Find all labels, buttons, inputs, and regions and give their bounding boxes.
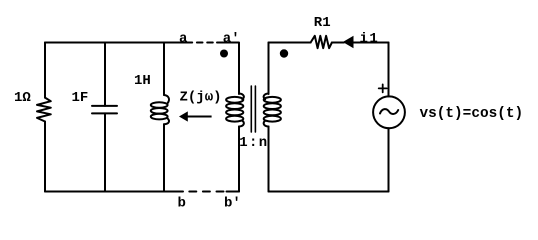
voltage source VS circle bbox=[373, 96, 405, 128]
voltage source sine tilde bbox=[380, 109, 398, 114]
wire 1H branch bottom bbox=[163, 124, 165, 191]
wire a-a' dashed bbox=[187, 42, 217, 44]
wire right vertical bottom bbox=[388, 128, 390, 191]
inductor L 1H coil bbox=[164, 95, 169, 103]
capacitor C 1F plates bbox=[92, 106, 117, 114]
transformer core lines bbox=[251, 86, 255, 132]
wire primary bottom bbox=[238, 127, 240, 192]
svg-text:b: b bbox=[178, 196, 186, 212]
impedance arrow Z bbox=[179, 111, 212, 121]
transformer primary coil bottom hook bbox=[239, 121, 244, 127]
wire 1H branch top bbox=[163, 43, 165, 96]
wire bottom-left horizontal bbox=[45, 191, 183, 193]
wire 1F branch bottom bbox=[104, 113, 106, 191]
svg-text:R1: R1 bbox=[314, 15, 331, 31]
wire 1F branch top bbox=[104, 43, 106, 106]
transformer secondary coil rings bbox=[264, 97, 281, 103]
wire top-left horizontal bbox=[45, 42, 186, 44]
svg-text:vs(t)=cos(t): vs(t)=cos(t) bbox=[420, 106, 524, 122]
resistor R 1ohm zigzag bbox=[37, 98, 51, 122]
transformer primary coil rings bbox=[226, 97, 243, 103]
svg-text:a': a' bbox=[223, 31, 240, 47]
wire R1 left lead bbox=[269, 42, 311, 44]
svg-text:Z(jω): Z(jω) bbox=[180, 89, 222, 105]
wire R1 right lead bbox=[332, 42, 344, 44]
polarity dot secondary bbox=[280, 49, 288, 57]
wire secondary bottom bbox=[268, 127, 270, 192]
wire secondary top bbox=[268, 43, 270, 95]
wire top-right from corner to arrow bbox=[353, 42, 389, 44]
wire left vertical top bbox=[44, 43, 46, 98]
wire right vertical top bbox=[388, 43, 390, 97]
svg-text:1F: 1F bbox=[72, 90, 89, 106]
transformer secondary coil top hook bbox=[264, 94, 269, 100]
transformer primary coil top hook bbox=[239, 94, 244, 100]
svg-text:i1: i1 bbox=[360, 31, 380, 47]
svg-text:1Ω: 1Ω bbox=[14, 90, 31, 106]
svg-text:1:n: 1:n bbox=[239, 135, 268, 151]
svg-text:a: a bbox=[179, 31, 188, 47]
wire b' stub bbox=[227, 191, 240, 193]
plus sign of source bbox=[379, 84, 387, 92]
svg-text:b': b' bbox=[224, 196, 241, 212]
resistor R1 zigzag bbox=[311, 36, 332, 48]
svg-text:1H: 1H bbox=[134, 73, 151, 89]
wire left vertical bottom bbox=[44, 122, 46, 192]
current arrow i1 bbox=[343, 36, 354, 48]
wire b-b' dashed bbox=[189, 191, 224, 193]
wire bottom-right horizontal bbox=[269, 191, 389, 193]
wire a' stub and vertical down bbox=[217, 43, 239, 95]
transformer secondary coil bottom hook bbox=[264, 121, 269, 127]
polarity dot primary bbox=[220, 50, 228, 58]
